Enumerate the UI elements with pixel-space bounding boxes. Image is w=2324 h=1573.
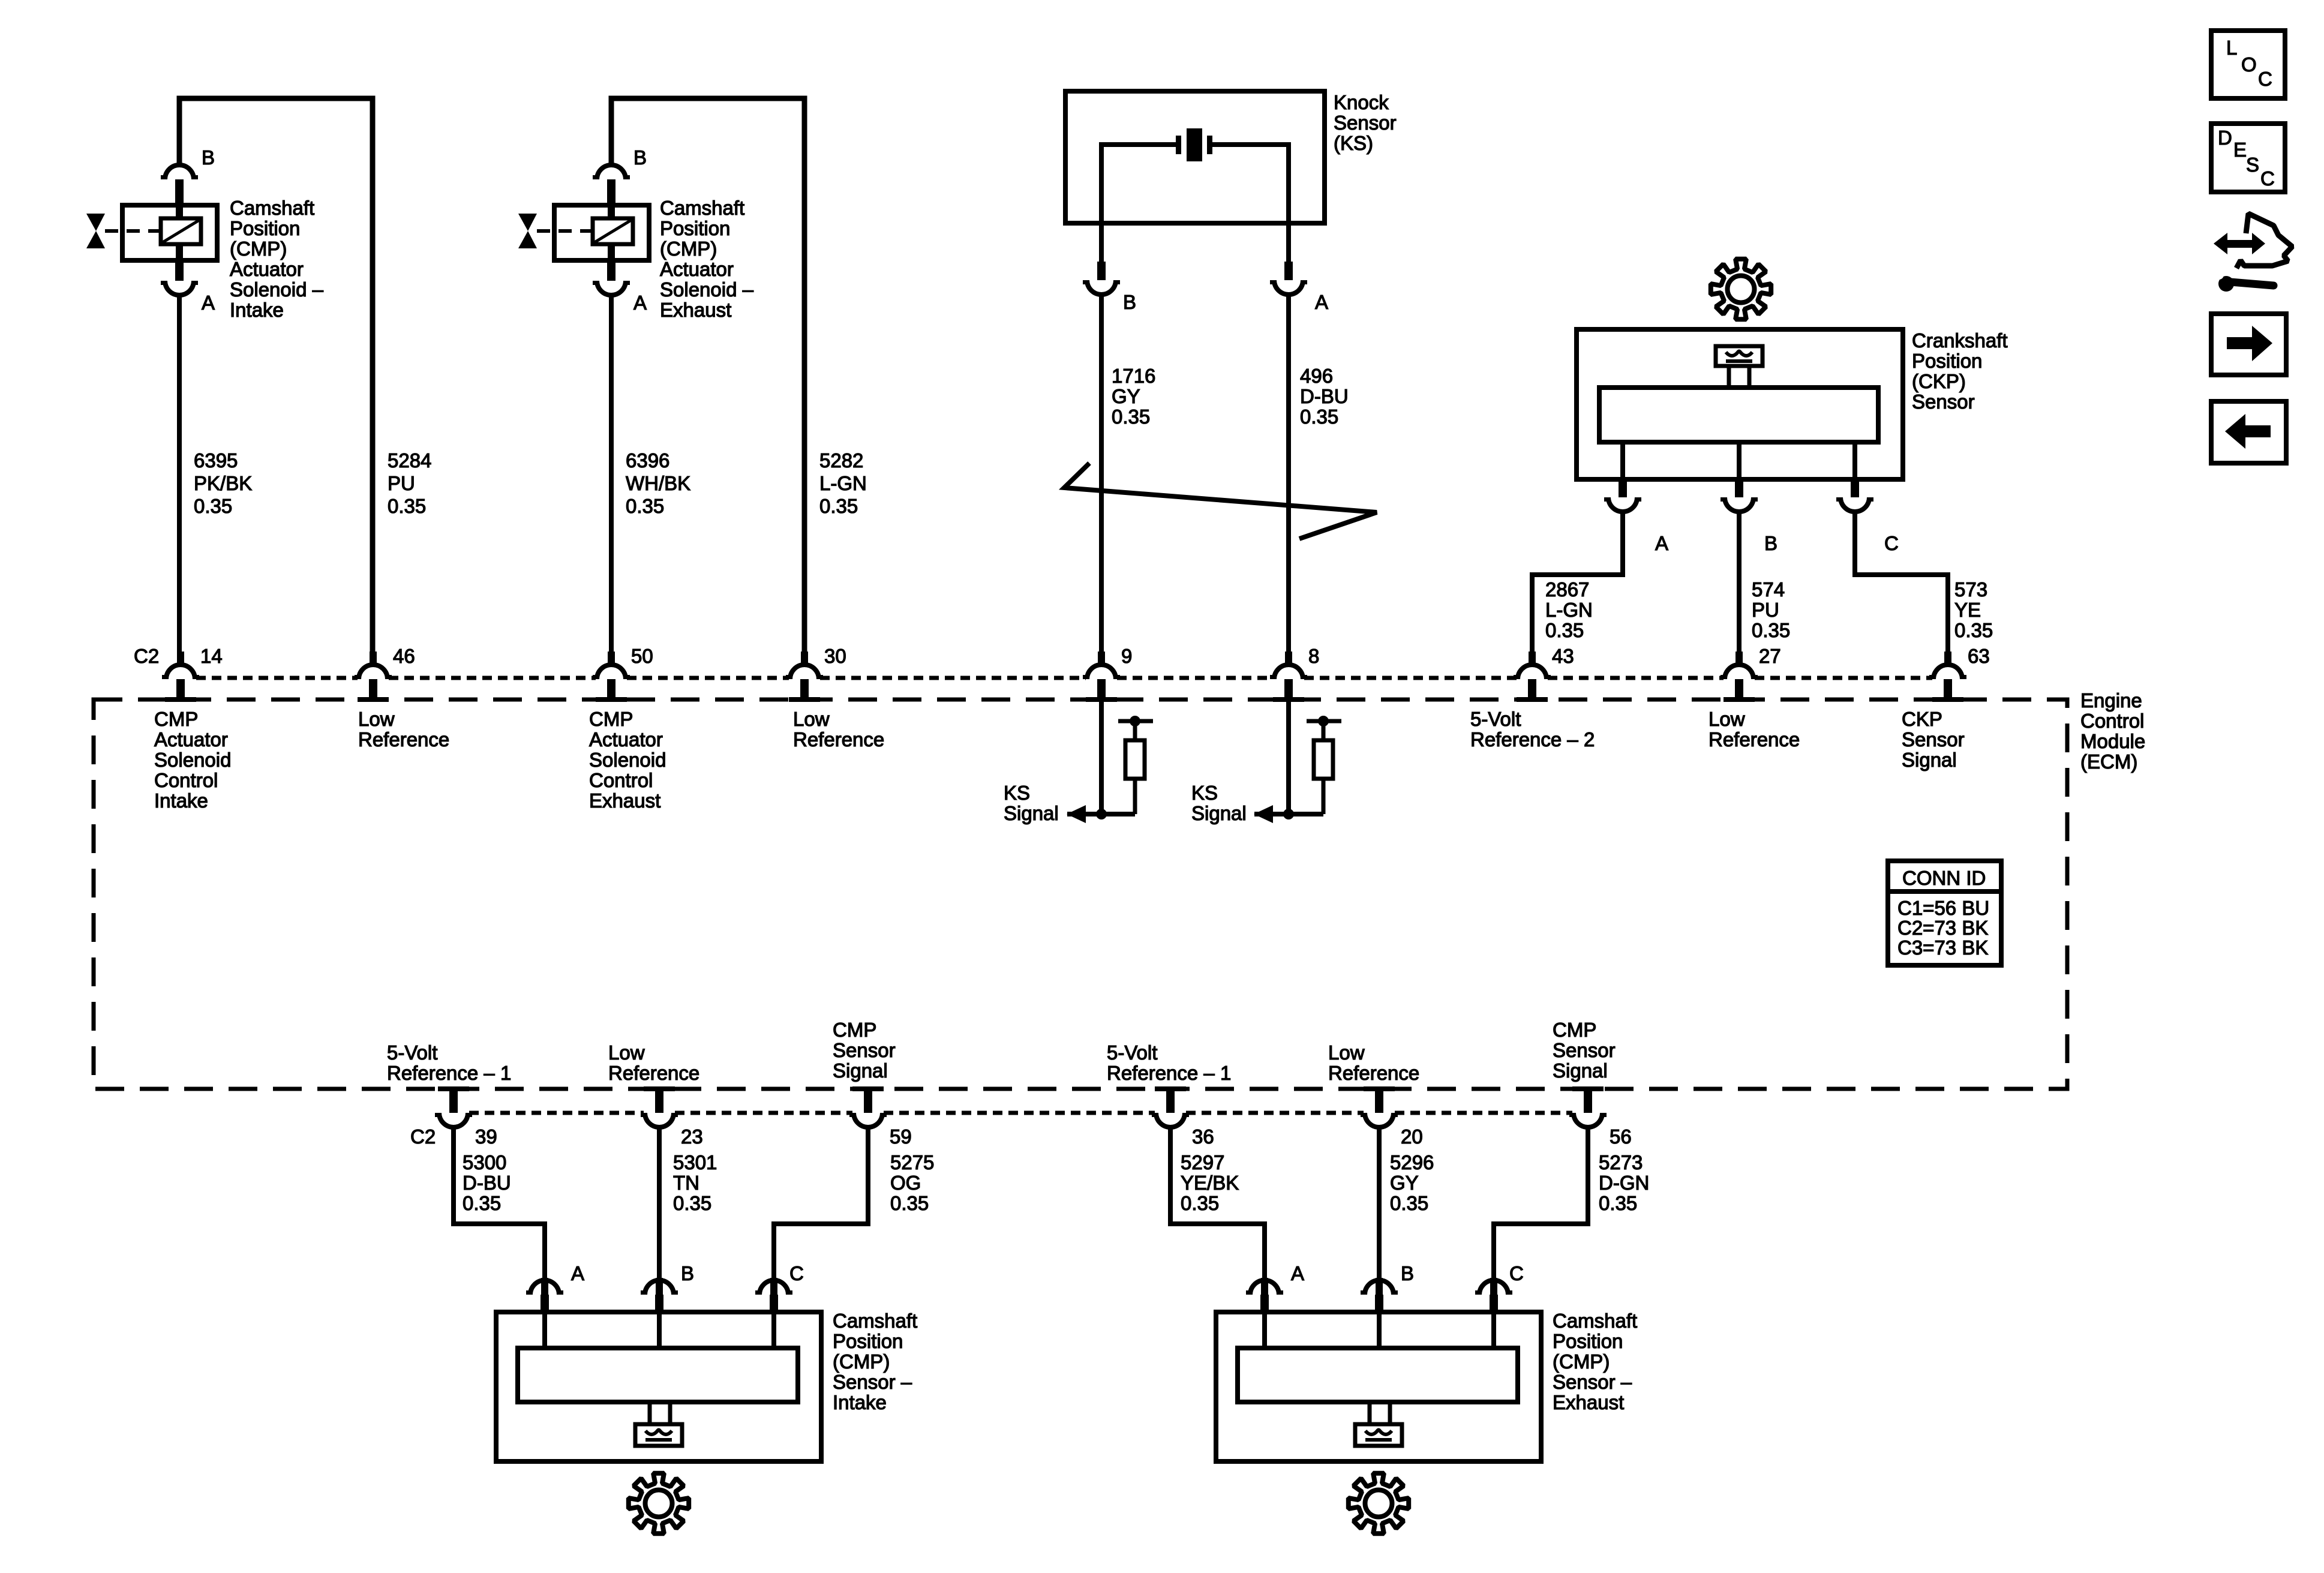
svg-text:C2: C2 [410,1125,436,1148]
svg-text:C: C [1509,1262,1524,1284]
svg-text:B: B [633,146,647,169]
wire 5301 TN [657,1125,662,1289]
svg-text:43: 43 [1552,645,1574,667]
svg-text:C1=56 BUC2=73 BKC3=73 BK: C1=56 BUC2=73 BKC3=73 BK [1897,897,1989,959]
svg-text:9: 9 [1121,645,1132,667]
svg-text:20: 20 [1401,1125,1423,1148]
forward arrow icon box [2211,314,2286,375]
wire 5300 D-BU [454,1125,545,1289]
CONN ID table [1888,861,2001,965]
wire loop Intake solenoid supply [179,98,373,663]
svg-text:50: 50 [631,645,653,667]
svg-text:A: A [571,1262,584,1284]
pin 59 connector [852,1086,884,1091]
CKP pin leads [1620,442,1625,479]
svg-text:EngineControlModule(ECM): EngineControlModule(ECM) [2080,689,2145,773]
crankshaft position (CKP) sensor box [1577,329,1903,479]
connector pin B (CMP sensor intake) [645,1280,674,1295]
svg-text:L: L [2226,37,2237,59]
CKP sensor element bar [1599,388,1878,442]
svg-text:39: 39 [475,1125,497,1148]
svg-text:CONN ID: CONN ID [1902,867,1986,889]
svg-text:C: C [2260,167,2275,190]
back arrow icon box [2211,401,2286,463]
pin 8 connector [1285,652,1292,666]
connector pin B (knock sensor) [1099,223,1104,262]
svg-text:C: C [2258,68,2272,90]
gear icon (camshaft reluctor exhaust) [1349,1473,1409,1533]
connector line C2 (top) [196,676,358,680]
engine control module (ECM) dashed box [94,700,2067,1089]
camshaft position (CMP) actuator solenoid - exhaust [554,205,649,260]
internal pull-up resistor [1118,719,1153,724]
svg-text:27: 27 [1759,645,1781,667]
wire 1716 GY [1099,294,1104,664]
svg-text:A: A [1655,532,1668,554]
wire 5273 D-GN [1494,1125,1588,1289]
svg-text:46: 46 [393,645,415,667]
connector pin B (Exhaust solenoid) [597,165,626,179]
wire 496 D-BU [1286,294,1291,664]
wire 5275 OG [774,1125,868,1289]
wire 6395 [177,295,182,664]
wire 574 PU [1737,511,1742,664]
pin 23 connector [644,1086,675,1091]
svg-text:S: S [2246,154,2259,176]
wire 6396 [609,295,614,664]
connector pin C (CKP) [1851,479,1859,497]
svg-text:14: 14 [200,645,223,667]
DESC icon box [2211,124,2285,192]
pin 30 connector [801,652,808,666]
pin 43 connector [1529,652,1536,666]
svg-text:A: A [633,292,647,314]
LOC icon box [2211,31,2285,98]
svg-text:8: 8 [1308,645,1319,667]
connector pin A (Exhaust solenoid) [607,260,615,281]
internal pull-up resistor [1307,719,1341,724]
wrench icon [2218,276,2234,292]
connector pin B (CMP sensor exhaust) [1365,1280,1394,1295]
valve symbol (Exhaust solenoid) [518,214,537,231]
CKP pickup termination [1716,346,1762,366]
svg-text:B: B [1764,532,1777,554]
KS signal internal circuit [1099,700,1104,814]
pin 27 connector [1736,652,1743,666]
pin 56 connector [1572,1086,1604,1091]
pin 14 connector [177,652,184,666]
pin 39 connector [438,1086,469,1091]
camshaft position (CMP) sensor - exhaust box [1216,1312,1541,1461]
valve symbol (Intake solenoid) [86,214,105,231]
connector pin A (CMP sensor intake) [530,1280,559,1295]
wire 5297 YE/BK [1170,1125,1265,1289]
connector pin A (CKP) [1619,479,1627,497]
connector pin B (Intake solenoid) [165,165,194,179]
crystal element inside knock sensor [1101,142,1178,147]
connector pin C (CMP sensor exhaust) [1479,1280,1508,1295]
connector pin A (knock sensor) [1286,223,1291,262]
svg-text:C: C [1884,532,1899,554]
svg-text:59: 59 [890,1125,912,1148]
connector pin C (CMP sensor intake) [759,1280,788,1295]
connector pin A (CMP sensor exhaust) [1250,1280,1279,1295]
connector pin B (CKP) [1735,479,1743,497]
svg-text:B: B [681,1262,694,1284]
svg-text:C2: C2 [134,645,159,667]
wire 2867 L-GN [1532,511,1623,664]
gear icon (camshaft reluctor intake) [629,1473,689,1533]
svg-text:B: B [202,146,215,169]
svg-text:23: 23 [681,1125,703,1148]
svg-text:B: B [1123,291,1136,313]
camshaft position (CMP) actuator solenoid - intake [122,205,217,260]
svg-text:O: O [2241,53,2257,76]
svg-text:E: E [2233,139,2247,161]
wire loop Exhaust solenoid supply [611,98,804,663]
svg-text:B: B [1401,1262,1414,1284]
diagnostic (car and wrench) icon [2214,233,2227,254]
svg-text:30: 30 [824,645,846,667]
connector pin A (Intake solenoid) [175,260,184,281]
svg-text:A: A [202,292,215,314]
pin 50 connector [608,652,615,666]
knock sensor (KS) box [1065,91,1325,223]
KS signal internal circuit [1286,700,1291,814]
svg-text:A: A [1291,1262,1304,1284]
svg-text:56: 56 [1610,1125,1632,1148]
gear icon (crankshaft reluctor) [1711,259,1771,319]
svg-text:C: C [789,1262,804,1284]
pin 36 connector [1155,1086,1186,1091]
svg-text:A: A [1315,291,1328,313]
connector line C2 (bottom) [469,1111,644,1115]
svg-text:36: 36 [1192,1125,1214,1148]
camshaft position (CMP) sensor - intake box [496,1312,821,1461]
pin 20 connector [1364,1086,1395,1091]
pin 9 connector [1098,652,1105,666]
pin 46 connector [370,652,377,666]
twisted pair marker [1064,463,1377,539]
wire 573 YE [1855,511,1948,664]
pin 63 connector [1944,652,1951,666]
svg-text:D: D [2218,127,2232,149]
svg-text:63: 63 [1968,645,1990,667]
wire 5296 GY [1377,1125,1382,1289]
